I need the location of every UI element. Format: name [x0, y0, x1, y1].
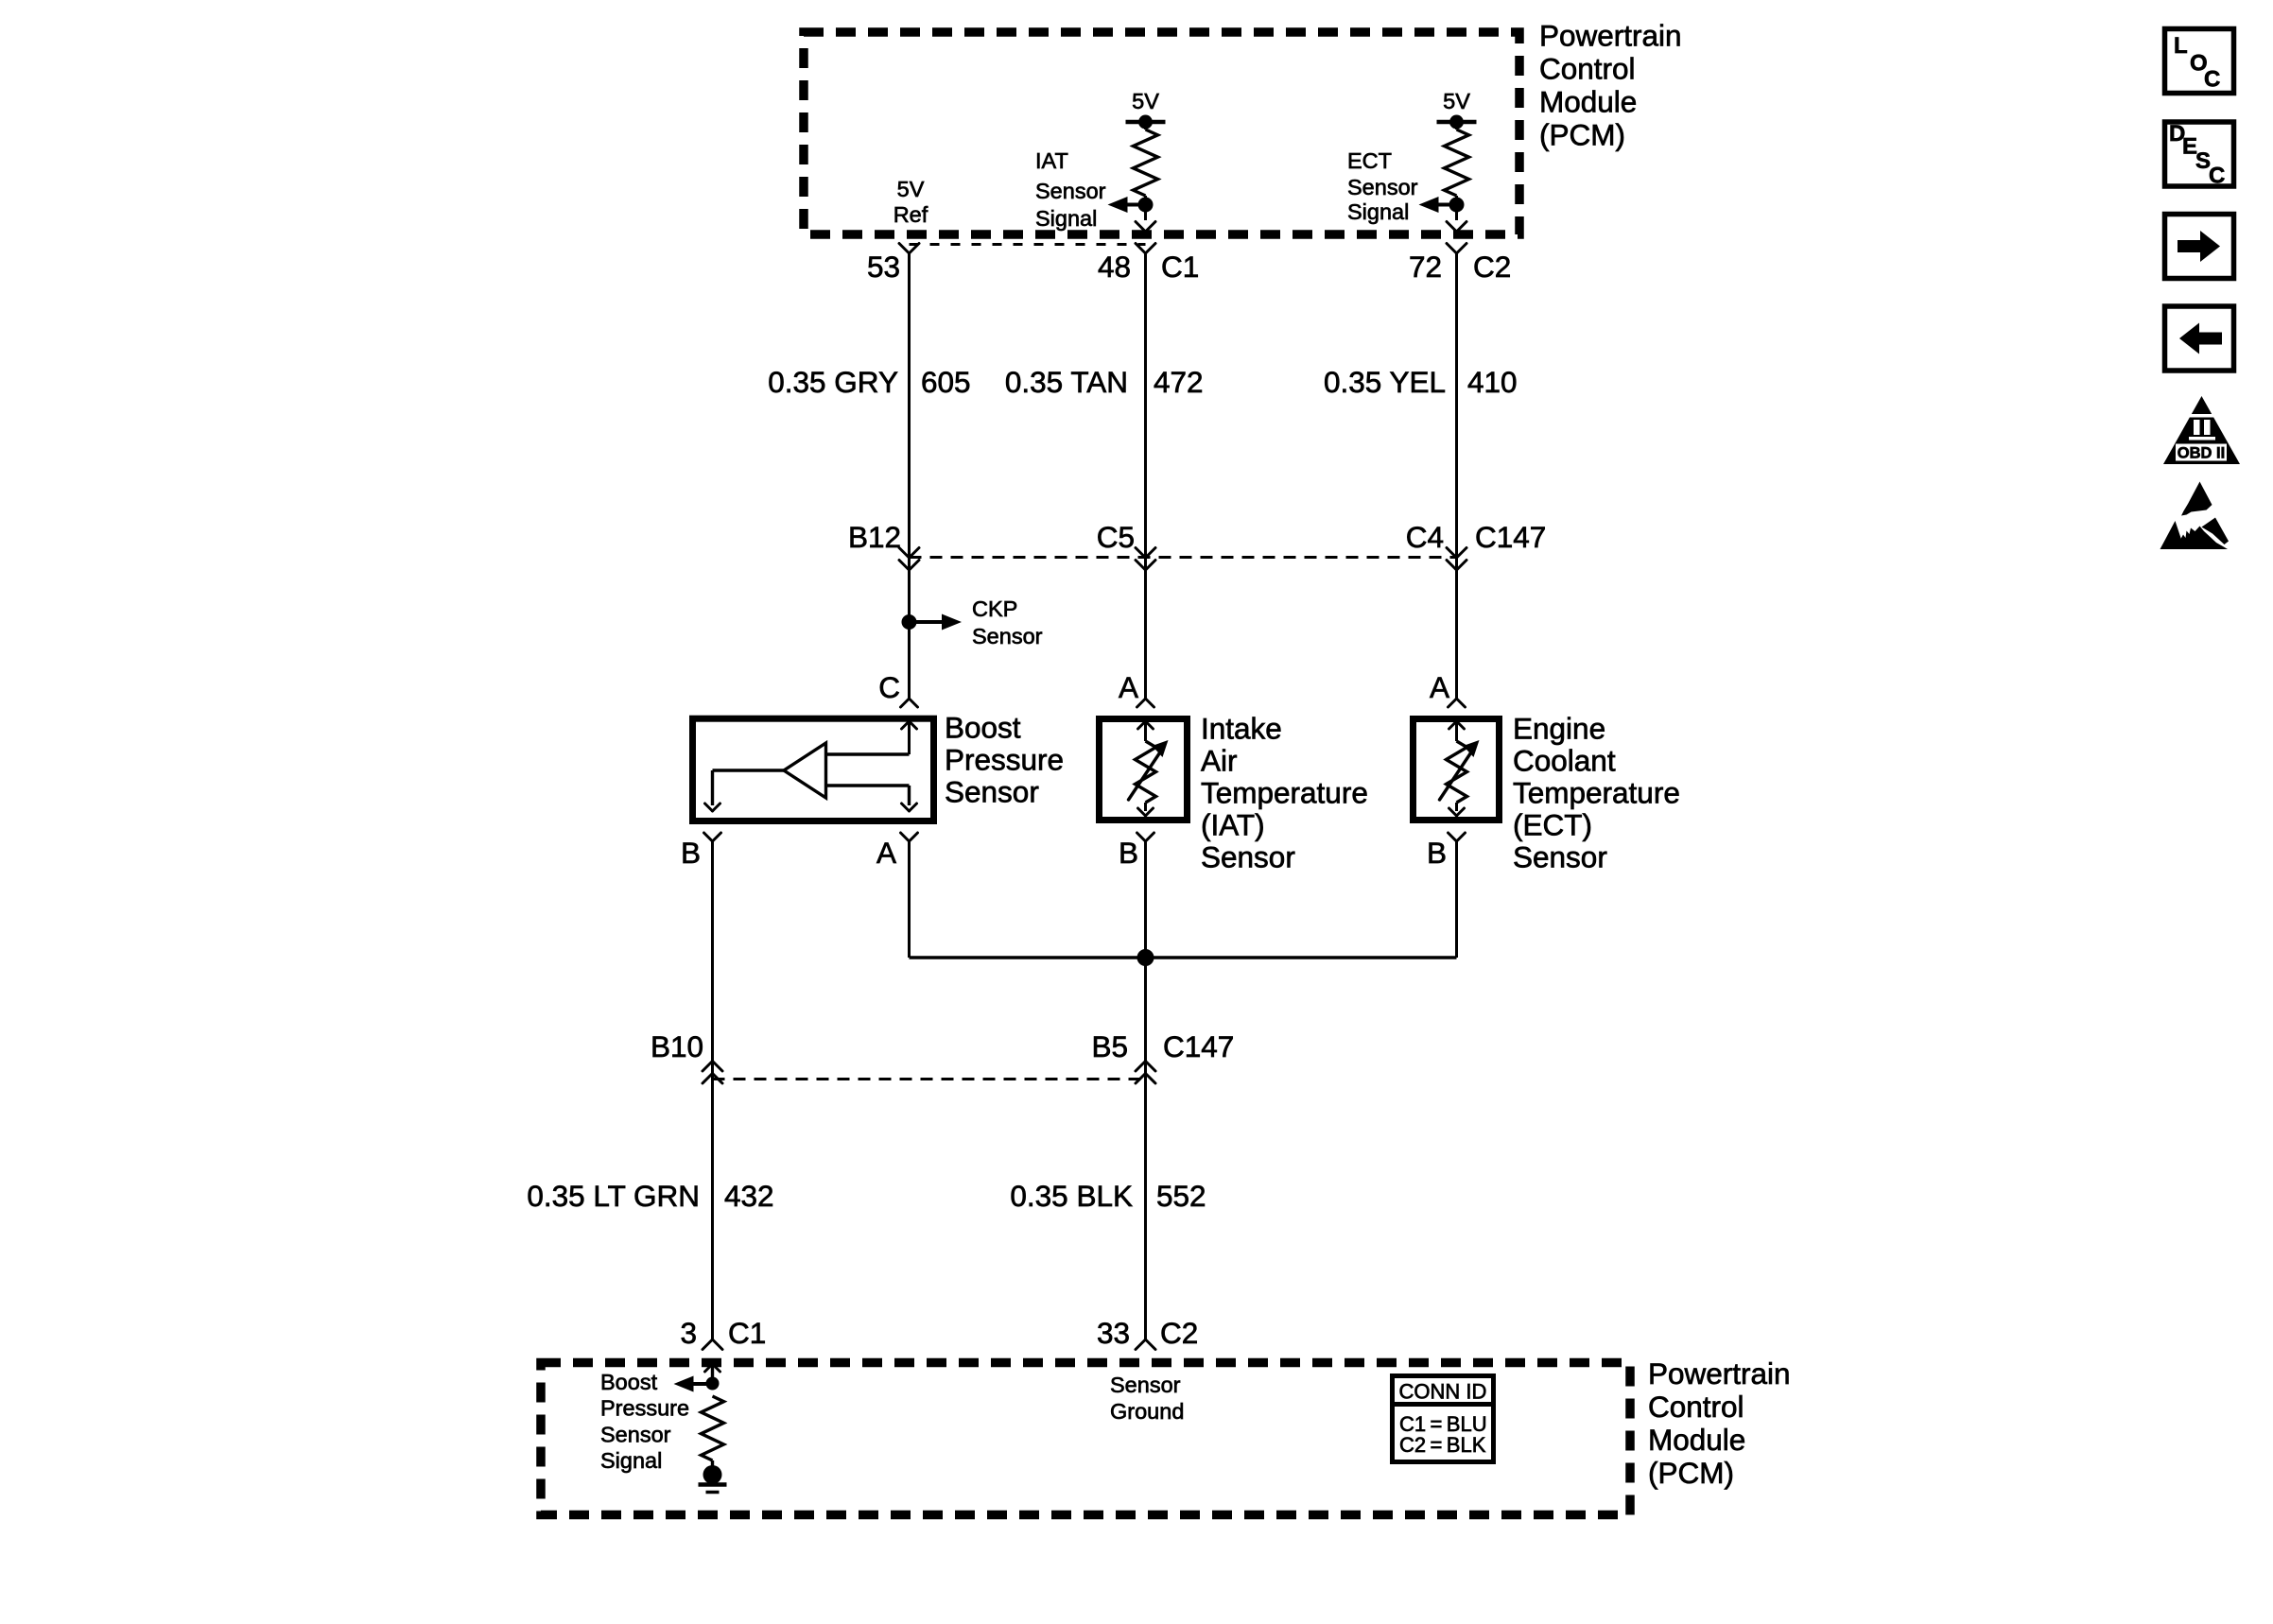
- svg-text:B10: B10: [651, 1029, 703, 1063]
- svg-text:Intake: Intake: [1201, 712, 1282, 746]
- svg-text:472: 472: [1154, 365, 1204, 399]
- svg-text:C1: C1: [728, 1316, 766, 1350]
- svg-text:Sensor: Sensor: [1035, 179, 1106, 203]
- svg-text:Control: Control: [1648, 1390, 1744, 1424]
- svg-text:C5: C5: [1097, 520, 1135, 554]
- svg-text:B5: B5: [1091, 1029, 1128, 1063]
- svg-text:Pressure: Pressure: [600, 1396, 689, 1421]
- svg-text:C1: C1: [1161, 250, 1199, 284]
- svg-text:552: 552: [1156, 1179, 1206, 1213]
- svg-text:Sensor: Sensor: [600, 1422, 671, 1446]
- svg-text:Signal: Signal: [1347, 199, 1409, 224]
- svg-text:(PCM): (PCM): [1539, 118, 1625, 152]
- svg-text:C: C: [2204, 67, 2220, 93]
- svg-text:Control: Control: [1539, 52, 1636, 86]
- svg-text:Ground: Ground: [1110, 1399, 1184, 1424]
- svg-text:410: 410: [1467, 365, 1518, 399]
- svg-text:3: 3: [680, 1316, 697, 1350]
- svg-text:C: C: [878, 670, 900, 704]
- svg-text:Module: Module: [1539, 85, 1637, 119]
- svg-text:48: 48: [1098, 250, 1131, 284]
- svg-text:(PCM): (PCM): [1648, 1456, 1734, 1490]
- svg-text:Sensor: Sensor: [1201, 840, 1295, 874]
- svg-text:72: 72: [1409, 250, 1442, 284]
- svg-text:432: 432: [724, 1179, 774, 1213]
- svg-text:B: B: [1119, 836, 1138, 870]
- svg-text:Coolant: Coolant: [1513, 744, 1616, 778]
- svg-text:Ref: Ref: [894, 202, 928, 227]
- svg-text:0.35 LT GRN: 0.35 LT GRN: [527, 1179, 700, 1213]
- svg-text:(IAT): (IAT): [1201, 808, 1265, 842]
- svg-text:L: L: [2174, 33, 2188, 59]
- svg-text:0.35 YEL: 0.35 YEL: [1324, 365, 1446, 399]
- svg-text:5V: 5V: [1132, 89, 1159, 113]
- svg-text:53: 53: [867, 250, 900, 284]
- svg-text:Sensor: Sensor: [1513, 840, 1607, 874]
- svg-text:C4: C4: [1406, 520, 1444, 554]
- svg-text:Air: Air: [1201, 744, 1238, 778]
- svg-text:B: B: [681, 836, 701, 870]
- svg-text:A: A: [876, 836, 896, 870]
- svg-text:Sensor: Sensor: [1110, 1373, 1181, 1397]
- svg-text:C2 = BLK: C2 = BLK: [1399, 1433, 1486, 1457]
- svg-text:0.35 TAN: 0.35 TAN: [1005, 365, 1128, 399]
- svg-text:Temperature: Temperature: [1201, 776, 1368, 810]
- svg-text:605: 605: [921, 365, 971, 399]
- svg-text:A: A: [1119, 670, 1138, 704]
- svg-text:A: A: [1430, 670, 1449, 704]
- svg-text:Sensor: Sensor: [945, 775, 1039, 809]
- svg-text:Temperature: Temperature: [1513, 776, 1680, 810]
- svg-text:C2: C2: [1160, 1316, 1198, 1350]
- svg-text:CKP: CKP: [972, 596, 1017, 621]
- svg-text:Boost: Boost: [600, 1370, 658, 1394]
- svg-text:C147: C147: [1163, 1029, 1234, 1063]
- svg-text:Engine: Engine: [1513, 712, 1605, 746]
- svg-text:Sensor: Sensor: [972, 624, 1043, 648]
- svg-text:Signal: Signal: [600, 1448, 662, 1473]
- svg-text:0.35 BLK: 0.35 BLK: [1010, 1179, 1133, 1213]
- svg-text:B12: B12: [848, 520, 901, 554]
- svg-text:C2: C2: [1473, 250, 1511, 284]
- svg-text:Sensor: Sensor: [1347, 175, 1418, 199]
- svg-text:ECT: ECT: [1347, 148, 1392, 173]
- svg-text:Pressure: Pressure: [945, 743, 1064, 777]
- svg-text:5V: 5V: [1443, 89, 1470, 113]
- svg-text:OBD II: OBD II: [2178, 445, 2225, 462]
- svg-text:Powertrain: Powertrain: [1539, 19, 1682, 53]
- svg-text:IAT: IAT: [1035, 148, 1068, 173]
- svg-text:Powertrain: Powertrain: [1648, 1356, 1791, 1391]
- svg-text:Module: Module: [1648, 1423, 1745, 1457]
- svg-text:B: B: [1427, 836, 1447, 870]
- svg-text:0.35 GRY: 0.35 GRY: [768, 365, 898, 399]
- svg-text:5V: 5V: [897, 177, 925, 201]
- svg-text:Signal: Signal: [1035, 206, 1097, 231]
- svg-text:33: 33: [1097, 1316, 1130, 1350]
- svg-text:C147: C147: [1475, 520, 1546, 554]
- svg-text:C: C: [2209, 164, 2225, 189]
- svg-text:Boost: Boost: [945, 711, 1021, 745]
- svg-text:CONN ID: CONN ID: [1399, 1380, 1487, 1404]
- svg-text:(ECT): (ECT): [1513, 808, 1592, 842]
